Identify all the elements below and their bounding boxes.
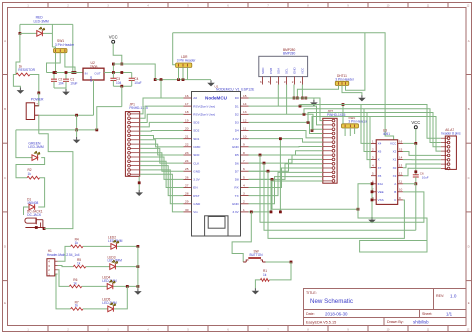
- ground below 4051: [371, 217, 373, 220]
- svg-text:RSV(Don't Use): RSV(Don't Use): [193, 112, 215, 116]
- svg-text:X2: X2: [393, 150, 397, 154]
- svg-text:RST: RST: [193, 194, 199, 198]
- wire BMP280 SCL down to D2: [286, 85, 288, 115]
- svg-text:INH: INH: [378, 182, 383, 186]
- svg-text:X7: X7: [378, 166, 382, 170]
- svg-text:104: 104: [116, 81, 122, 85]
- svg-text:16: 16: [185, 94, 189, 98]
- wire resistor R3 left lead to ground: [13, 75, 20, 88]
- wire R1 to ground: [255, 280, 260, 288]
- node junction lower rail right: [95, 129, 98, 132]
- svg-text:BUTTON: BUTTON: [250, 253, 264, 257]
- svg-text:New Schematic: New Schematic: [310, 298, 353, 305]
- node junction BMP GND: [293, 97, 296, 100]
- wire R5 to LED3: [86, 266, 110, 268]
- svg-text:D2: D2: [235, 112, 239, 116]
- svg-text:D1: D1: [235, 104, 239, 108]
- LED LED4 LED-3MM: [107, 284, 113, 290]
- diode D1 1N5408: [29, 204, 35, 210]
- svg-text:14: 14: [399, 155, 403, 159]
- svg-text:D: D: [468, 245, 470, 249]
- svg-text:D8: D8: [235, 178, 239, 182]
- svg-text:GND: GND: [193, 202, 201, 206]
- svg-text:9: 9: [243, 143, 245, 147]
- svg-text:Header-Male-2.54_1x4: Header-Male-2.54_1x4: [47, 253, 80, 257]
- svg-text:11: 11: [399, 180, 402, 184]
- svg-text:21: 21: [185, 135, 189, 139]
- ground right of BMP280: [313, 100, 315, 103]
- op-amp U2 7805 regulator body: [83, 68, 104, 80]
- svg-text:SDA: SDA: [277, 68, 281, 74]
- svg-text:1k: 1k: [263, 273, 267, 277]
- svg-text:EasyEDA V5.5.15: EasyEDA V5.5.15: [306, 320, 336, 324]
- wire 7805 output: [104, 72, 132, 74]
- wire 4051 channels to A0-A7 header: [299, 105, 302, 108]
- node junction SW1 pin3 to rail: [74, 71, 77, 74]
- wire 4051 select A jog: [403, 184, 416, 231]
- wire 4051 VEE VSS to ground: [371, 184, 373, 217]
- svg-text:2: 2: [243, 200, 245, 204]
- wire long VCC rail to right: [113, 64, 155, 80]
- svg-text:A: A: [4, 39, 6, 43]
- svg-text:10: 10: [399, 188, 403, 192]
- node junction battery plus: [37, 92, 40, 95]
- wire 4051 select C from D7: [249, 170, 269, 172]
- svg-text:10: 10: [243, 135, 247, 139]
- svg-text:7: 7: [243, 159, 245, 163]
- wire SW1 pin1 from red LED loop: [52, 47, 55, 49]
- connector LDR 3-pin header body: [176, 63, 192, 67]
- svg-text:12: 12: [399, 172, 403, 176]
- svg-text:23: 23: [185, 151, 189, 155]
- resistor R6 1k: [69, 285, 82, 288]
- wire fan JP1 to NodeMCU left pins: [140, 98, 184, 114]
- LED D2 RED LED-3MM: [37, 31, 43, 37]
- node junction minus rail: [75, 114, 78, 117]
- wire NodeMCU 3V3 pin1 down to button loop: [250, 211, 253, 214]
- svg-text:VCC: VCC: [390, 142, 397, 146]
- svg-text:LED-3MM: LED-3MM: [28, 145, 43, 149]
- wire green LED cathode to R2: [16, 158, 45, 178]
- svg-text:CSB: CSB: [269, 68, 273, 74]
- wire vcc cap branch: [415, 143, 417, 171]
- svg-text:29: 29: [185, 200, 189, 204]
- wire SW1 pin2 down: [47, 53, 61, 73]
- wire red LED row: [20, 32, 37, 34]
- svg-text:header 8 pins: header 8 pins: [441, 132, 461, 136]
- svg-text:6: 6: [243, 167, 245, 171]
- svg-text:20: 20: [185, 126, 189, 130]
- wire D0 row to ground right: [306, 98, 314, 100]
- svg-text:DC-JACK: DC-JACK: [27, 213, 42, 217]
- svg-text:SD0: SD0: [193, 153, 199, 157]
- wire caps bottom rail to ground: [54, 88, 66, 89]
- ground below LED rail: [137, 289, 139, 292]
- wire LED2 row to right rail: [117, 245, 138, 247]
- wire H1 pin3 to R6 row: [58, 270, 70, 287]
- svg-text:1k: 1k: [75, 304, 79, 308]
- wire battery minus to loop: [38, 115, 40, 134]
- svg-text:3 Pin Header: 3 Pin Header: [55, 43, 75, 47]
- node junction lower rail: [75, 129, 78, 132]
- wire VCC to 4051 pin16: [403, 129, 416, 144]
- wire SW1 pin3 down: [65, 53, 75, 73]
- svg-text:OUT: OUT: [94, 71, 101, 75]
- svg-text:1k: 1k: [75, 241, 79, 245]
- wire 4051 select B from D5: [249, 154, 261, 156]
- wire R4 to LED2: [83, 245, 111, 247]
- svg-text:10uF: 10uF: [70, 81, 77, 85]
- svg-text:3.3V: 3.3V: [232, 137, 239, 141]
- svg-text:D6: D6: [235, 161, 239, 165]
- wire LDR pin2 to A0: [178, 67, 180, 79]
- svg-text:1: 1: [243, 208, 245, 212]
- svg-text:D3: D3: [235, 121, 239, 125]
- svg-text:SD3: SD3: [193, 121, 199, 125]
- wire output caps bottom rail: [113, 85, 131, 87]
- resistor R7 1k: [71, 308, 83, 311]
- svg-text:E: E: [468, 301, 470, 305]
- svg-text:13: 13: [243, 110, 247, 114]
- svg-text:D4: D4: [235, 129, 239, 133]
- svg-text:VCC: VCC: [109, 35, 118, 40]
- wire R2 to diode D1: [38, 178, 44, 207]
- svg-text:B: B: [394, 190, 396, 194]
- svg-text:27: 27: [185, 183, 189, 187]
- svg-text:4051: 4051: [383, 132, 390, 136]
- wire BMP280 VCC down: [301, 85, 303, 99]
- svg-text:A: A: [394, 182, 396, 186]
- svg-text:Vin: Vin: [193, 210, 198, 214]
- wire R7 to LED5: [83, 308, 108, 310]
- wire VCC to output rail: [113, 43, 122, 64]
- node junction C2 top: [53, 71, 56, 74]
- svg-text:shibilisb: shibilisb: [413, 319, 429, 324]
- node junction VCC rail start: [120, 63, 123, 66]
- wire 4051 select A from D6: [249, 162, 265, 164]
- capacitor C4 10uF: [131, 73, 133, 79]
- wire LDR bottom rail: [155, 79, 211, 81]
- wire BMP280 GND down: [293, 85, 295, 99]
- svg-text:3 Pin Header: 3 Pin Header: [177, 59, 197, 63]
- capacitor C1 10uF: [65, 73, 67, 80]
- node junction C1 top: [65, 71, 68, 74]
- svg-text:1/1: 1/1: [446, 311, 453, 316]
- resistor R1 1k: [260, 279, 269, 282]
- connector SW1 3-pin header body: [54, 49, 68, 53]
- svg-text:3: 3: [243, 192, 245, 196]
- svg-text:LED-3MM: LED-3MM: [34, 19, 49, 23]
- svg-text:4: 4: [243, 183, 245, 187]
- resistor R2 1k: [27, 176, 39, 179]
- svg-text:1.0: 1.0: [450, 294, 457, 299]
- svg-text:3 Pin Header: 3 Pin Header: [335, 77, 355, 81]
- svg-text:B: B: [4, 107, 6, 111]
- svg-text:Date:: Date:: [306, 312, 315, 316]
- ground on lower rail: [76, 130, 78, 137]
- svg-text:1k: 1k: [77, 261, 81, 265]
- resistor R4 1k: [71, 245, 83, 248]
- svg-text:RX: RX: [234, 186, 238, 190]
- svg-text:8: 8: [243, 151, 245, 155]
- battery G1 body: [26, 103, 34, 120]
- wire H1 pin1 to R4 row: [58, 246, 71, 261]
- node junction 7805 out at VCC riser: [120, 71, 123, 74]
- svg-text:3.3V: 3.3V: [232, 210, 239, 214]
- wire LED4 to rail: [113, 285, 137, 287]
- node junction vcc 4051: [414, 142, 417, 145]
- wire LED3 to rail: [116, 266, 138, 268]
- svg-text:GND: GND: [232, 202, 240, 206]
- resistor R3 1k: [16, 73, 30, 76]
- node junction caps bottom: [120, 85, 123, 88]
- wire DHT11 vcc pin: [346, 33, 365, 90]
- svg-text:12: 12: [243, 118, 247, 122]
- svg-text:X5: X5: [378, 174, 382, 178]
- svg-text:30: 30: [185, 208, 189, 212]
- ground below JP1: [138, 190, 140, 193]
- svg-text:1k: 1k: [28, 172, 32, 176]
- switch SW BUTTON body: [243, 261, 246, 263]
- svg-text:11: 11: [243, 126, 246, 130]
- svg-text:15: 15: [399, 147, 403, 151]
- node junction 7805 out at C3: [112, 71, 115, 74]
- ground under resistor R3: [19, 88, 21, 91]
- svg-text:X4: X4: [378, 142, 382, 146]
- svg-text:RSV(Don't Use): RSV(Don't Use): [193, 104, 215, 108]
- wire R6 to LED4: [82, 285, 107, 287]
- ground under input caps: [65, 89, 67, 92]
- svg-text:+: +: [36, 102, 38, 106]
- svg-text:C: C: [468, 176, 470, 180]
- svg-text:CLK: CLK: [193, 161, 200, 165]
- svg-text:13: 13: [399, 164, 403, 168]
- wire button right to junction: [266, 261, 292, 263]
- svg-text:SDO: SDO: [261, 67, 265, 74]
- svg-text:GND: GND: [89, 76, 93, 82]
- wire INH to ground rail: [358, 184, 427, 241]
- wire DHT11 data pin down: [297, 86, 338, 99]
- svg-text:B: B: [468, 107, 470, 111]
- wire from red LED junction down to resistor R3: [16, 33, 20, 74]
- svg-text:VCC: VCC: [411, 120, 420, 125]
- svg-text:X6: X6: [378, 150, 382, 154]
- connector DHT11 3-pin header body: [335, 81, 349, 85]
- svg-text:GND: GND: [193, 169, 201, 173]
- title block: [304, 289, 467, 326]
- wire SW2 pins down: [344, 128, 346, 136]
- wire fan NodeMCU right pins to JP2: [249, 98, 323, 121]
- svg-text:E: E: [4, 301, 6, 305]
- svg-text:X3: X3: [393, 174, 397, 178]
- connector H1 Header-Male-2.54_1x4: [47, 259, 55, 276]
- svg-text:SD2: SD2: [193, 129, 199, 133]
- wire INH from D8: [249, 178, 273, 180]
- svg-text:EN: EN: [193, 186, 197, 190]
- connector DCJACK1 DC-JACK body: [25, 218, 36, 223]
- wire diode D1 anode down to jack: [24, 207, 29, 215]
- svg-text:3 Pin Header: 3 Pin Header: [348, 119, 368, 123]
- wire 7805 input rail: [47, 72, 84, 74]
- wire 7805 GND pin down: [93, 80, 95, 115]
- wire battery minus rail: [39, 114, 94, 116]
- node junction BMP VCC: [301, 97, 304, 100]
- svg-text:CMD: CMD: [193, 145, 201, 149]
- ground above NodeMCU: [210, 80, 212, 83]
- wire junction down to R1: [269, 262, 291, 280]
- ground below button: [254, 288, 256, 291]
- svg-text:D0: D0: [235, 96, 239, 100]
- svg-text:IN: IN: [85, 71, 88, 75]
- svg-text:D7: D7: [235, 169, 239, 173]
- wire bottom right loop: [360, 241, 427, 253]
- svg-text:10uF: 10uF: [422, 175, 429, 179]
- svg-text:19: 19: [185, 118, 189, 122]
- LED LED5 LED-3MM: [108, 306, 114, 312]
- svg-text:Sheet:: Sheet:: [422, 312, 432, 316]
- wire resistor R3 right lead down to battery plus: [30, 75, 39, 93]
- wire junction down to lower rail: [76, 115, 78, 130]
- svg-text:X0: X0: [393, 166, 397, 170]
- wire H1 pin4 to R7 row: [56, 274, 71, 309]
- svg-text:X: X: [378, 158, 380, 162]
- svg-text:1k: 1k: [73, 281, 77, 285]
- wire lower rail riser to mid rail: [97, 107, 122, 130]
- wire lower rail to green LED: [16, 130, 32, 158]
- svg-text:SCL: SCL: [285, 68, 289, 74]
- svg-text:Drawn By:: Drawn By:: [387, 320, 404, 324]
- svg-text:25: 25: [185, 167, 189, 171]
- svg-text:3.3V: 3.3V: [193, 178, 200, 182]
- svg-text:14: 14: [243, 102, 247, 106]
- svg-text:BMP280: BMP280: [283, 52, 295, 56]
- svg-text:15: 15: [243, 94, 247, 98]
- svg-text:VSS: VSS: [378, 198, 384, 202]
- node junction at red LED anode: [19, 32, 22, 35]
- LED LED2 LED-3MM: [111, 244, 117, 250]
- wire DHT11 gnd pin to ground: [342, 86, 362, 96]
- capacitor C3 104: [112, 73, 114, 79]
- svg-text:REV:: REV:: [436, 294, 444, 298]
- LED LED3 LED-3MM: [110, 264, 116, 270]
- svg-text:A: A: [468, 39, 470, 43]
- svg-text:24: 24: [185, 159, 189, 163]
- wire LED rail down to ground: [137, 246, 139, 288]
- wire DC jack to right riser: [39, 134, 73, 229]
- wire caps bottom down to mid rail: [121, 86, 123, 106]
- ground right of DHT11: [361, 95, 363, 98]
- svg-text:NodeMCU: NodeMCU: [205, 95, 228, 100]
- wire 3.3V tie between pin10 and pin1 rows: [279, 139, 281, 212]
- wire SW1 pin1 down to IN rail: [55, 53, 57, 73]
- LED D3 GREEN LED-3MM: [32, 155, 38, 161]
- svg-text:104: 104: [58, 81, 64, 85]
- wire battery plus pin: [35, 93, 39, 106]
- wire H1 pin2 to R5 row: [58, 266, 74, 267]
- svg-text:GND: GND: [293, 67, 297, 75]
- wire BMP280 SDA down to D1: [277, 85, 279, 107]
- wire JP1 pin15 to ground: [138, 176, 140, 190]
- capacitor C6 10uF at 4051: [415, 172, 417, 175]
- node junction DC jack pins: [35, 226, 38, 229]
- svg-text:VEE: VEE: [378, 190, 384, 194]
- svg-text:X1: X1: [393, 158, 397, 162]
- svg-text:RESISTOR: RESISTOR: [18, 68, 35, 72]
- svg-text:A0: A0: [193, 96, 197, 100]
- node junction SW1 pin1 to rail: [54, 71, 57, 74]
- svg-text:SD1: SD1: [193, 137, 199, 141]
- svg-text:GND: GND: [232, 145, 240, 149]
- svg-text:28: 28: [185, 192, 189, 196]
- svg-text:C: C: [4, 176, 6, 180]
- wire net to red LED loop: [20, 23, 73, 25]
- svg-text:TX: TX: [235, 194, 239, 198]
- svg-text:D5: D5: [235, 153, 239, 157]
- resistor R5 1k: [73, 265, 86, 268]
- svg-text:VCC: VCC: [301, 67, 305, 74]
- svg-text:2018-06-30: 2018-06-30: [325, 311, 348, 316]
- svg-text:18: 18: [185, 110, 189, 114]
- wire LED5 jog up to LED4 row: [114, 286, 127, 309]
- svg-text:16: 16: [399, 139, 403, 143]
- svg-text:D: D: [4, 245, 6, 249]
- svg-text:5: 5: [243, 175, 245, 179]
- svg-text:26: 26: [185, 175, 189, 179]
- connector SW2 3-pin header body: [342, 124, 359, 128]
- wire LDR feed from top VCC wire: [173, 33, 176, 65]
- svg-text:22: 22: [185, 143, 189, 147]
- svg-text:17: 17: [185, 102, 189, 106]
- svg-text:10uF: 10uF: [134, 81, 141, 85]
- wire lower ground rail: [16, 129, 97, 131]
- svg-text:TITLE:: TITLE:: [306, 291, 317, 295]
- capacitor C2 104: [53, 73, 55, 80]
